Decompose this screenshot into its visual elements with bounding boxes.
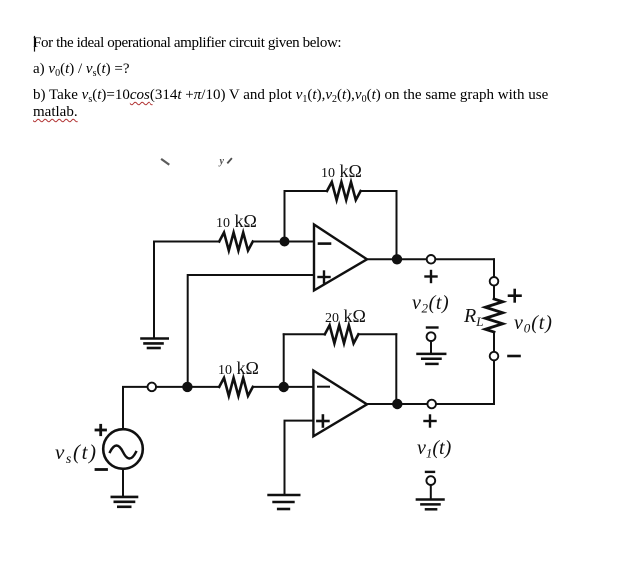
svg-text:v2(t): v2(t)	[412, 292, 449, 316]
wire feedback left vertical	[284, 191, 286, 242]
terminal source open circle	[148, 383, 157, 392]
wire feedback2 top right	[358, 333, 396, 335]
ground G2 source	[112, 497, 137, 507]
node B junction dot	[182, 382, 192, 392]
wire right rail bottom	[493, 360, 495, 403]
source vs circle	[103, 429, 143, 469]
node A junction dot	[280, 237, 290, 247]
label v1 plus	[425, 416, 436, 427]
wire feedback top right	[361, 190, 397, 192]
ground G3	[269, 495, 300, 509]
resistor R2 10k feedback	[327, 182, 361, 200]
wire RL top lead	[493, 286, 495, 299]
svg-text:10 kΩ: 10 kΩ	[218, 358, 259, 378]
wire R3 to op-amp	[253, 386, 313, 388]
source sine wave	[110, 446, 136, 459]
svg-text:RL: RL	[463, 305, 483, 329]
node U1 out junction dot	[392, 254, 402, 264]
node U2 out junction dot	[392, 399, 402, 409]
v1 reference ground bar	[426, 471, 434, 473]
pencil mark	[162, 160, 168, 165]
wire source top	[123, 387, 148, 429]
wire source node	[156, 386, 219, 388]
wire right rail down to RL	[493, 259, 495, 277]
v1 reference ground	[417, 500, 444, 510]
U1 plus marker	[319, 272, 330, 283]
op-amp U2	[313, 371, 367, 437]
resistor R1 10k top-left	[219, 233, 253, 251]
v2 reference ground bar	[427, 326, 437, 328]
terminal v1 open circle	[427, 400, 436, 409]
wire RL bottom lead	[493, 332, 495, 352]
wire feedback top left	[285, 190, 328, 192]
op-amp U1	[314, 225, 367, 291]
v1 reference open circle	[426, 476, 435, 485]
resistor R4 20k feedback	[325, 325, 359, 343]
wire top input left	[154, 241, 219, 243]
wire feedback right vertical	[396, 191, 398, 259]
wire R1 to op-amp	[253, 241, 314, 243]
svg-text:10 kΩ: 10 kΩ	[216, 211, 257, 231]
source minus	[96, 468, 107, 471]
wire source bottom	[122, 469, 124, 496]
resistor R3 10k bottom	[219, 378, 253, 396]
svg-text:y: y	[219, 156, 225, 167]
wire U1 output	[367, 258, 494, 260]
svg-text:vs(t): vs(t)	[55, 440, 98, 467]
v2 reference open circle	[427, 332, 436, 341]
wire U2 plus input	[285, 421, 314, 494]
wire feedback2 top left	[284, 333, 325, 335]
label v2 plus	[426, 271, 437, 282]
node C junction dot	[279, 382, 289, 392]
terminal RL top open circle	[490, 277, 499, 286]
wire U2 output	[367, 403, 494, 405]
label v0 minus	[509, 355, 520, 358]
U1 minus marker	[319, 242, 330, 245]
U2 minus marker	[318, 386, 329, 388]
pencil mark slash	[228, 159, 231, 163]
svg-text:10 kΩ: 10 kΩ	[321, 161, 362, 181]
wire U1 plus input	[188, 275, 314, 387]
svg-text:20 kΩ: 20 kΩ	[325, 306, 366, 326]
U2 plus marker	[317, 416, 328, 427]
terminal RL bottom open circle	[490, 352, 499, 361]
ground G1	[142, 339, 168, 349]
wire feedback2 right vertical	[395, 334, 397, 404]
wire feedback2 left vertical	[283, 334, 285, 387]
v1 reference wire	[430, 485, 432, 499]
v2 reference wire	[430, 341, 432, 352]
terminal v2 open circle	[427, 255, 436, 264]
resistor RL	[485, 299, 502, 332]
source plus	[96, 425, 106, 434]
cursor bar	[34, 37, 36, 52]
svg-text:v1(t): v1(t)	[417, 437, 452, 461]
v2 reference ground	[418, 354, 446, 364]
svg-text:v0(t): v0(t)	[514, 312, 553, 336]
label v0 plus	[509, 290, 521, 301]
wire left vertical to ground	[153, 242, 155, 338]
